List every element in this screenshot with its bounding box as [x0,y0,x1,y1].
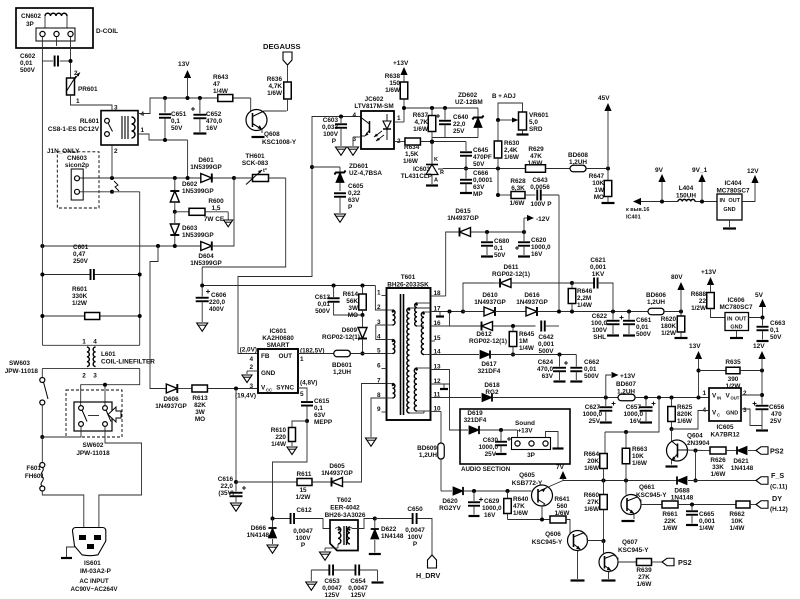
svg-text:100V: 100V [323,131,339,138]
svg-text:47K: 47K [513,503,525,510]
capacitor C661 [623,312,652,339]
wire [563,479,698,483]
svg-text:1N4937GP: 1N4937GP [321,470,353,477]
svg-text:0,0047: 0,0047 [405,527,425,534]
svg-text:(2,0V): (2,0V) [240,347,257,354]
resistor R661 [662,501,736,532]
svg-text:R641: R641 [554,496,570,503]
resistor PR601 [66,70,98,105]
svg-text:2: 2 [743,390,747,397]
potentiometer VR601 [496,112,549,135]
supply 12V [742,168,759,202]
svg-text:470: 470 [771,411,782,418]
svg-text:R664: R664 [584,451,600,458]
svg-text:1: 1 [82,339,86,346]
svg-text:1/2W: 1/2W [72,300,88,307]
svg-text:1/4W: 1/4W [577,302,593,309]
svg-text:R639: R639 [636,567,652,574]
svg-text:IC605: IC605 [716,424,733,431]
svg-text:3W: 3W [195,409,206,416]
svg-text:0,0047: 0,0047 [348,585,368,592]
svg-text:D601: D601 [198,157,214,164]
svg-text:470,0: 470,0 [537,366,553,373]
resistor R637 [413,108,436,144]
capacitor C651 [159,96,187,140]
svg-text:C612: C612 [296,507,312,514]
thermistor TH601 [234,153,286,185]
svg-text:150: 150 [389,80,400,87]
svg-text:GND: GND [723,207,735,213]
diode D611 [492,264,530,288]
diode D602 [170,178,214,214]
svg-text:1M: 1M [519,338,528,345]
resistor R626 [703,447,736,478]
svg-text:KSC945-Y: KSC945-Y [532,539,563,546]
svg-text:MO: MO [195,416,205,423]
svg-text:IC603: IC603 [413,166,430,173]
svg-text:1N4937GP: 1N4937GP [516,299,548,306]
svg-text:16V: 16V [206,125,218,132]
wire [494,281,574,285]
diode D619 [464,410,487,434]
svg-text:0,0001: 0,0001 [473,177,493,184]
svg-text:16V: 16V [630,418,642,425]
svg-text:0,0047: 0,0047 [293,528,313,535]
svg-text:C601: C601 [73,244,89,251]
svg-text:50V: 50V [473,161,485,168]
capacitor C680 [481,232,510,259]
svg-text:47K: 47K [530,153,542,160]
svg-text:3P: 3P [527,452,536,459]
resistor R613 [178,385,259,423]
inductor L404 [676,185,696,202]
svg-text:R635: R635 [725,359,741,366]
svg-text:+13V: +13V [620,373,636,380]
resistor R639 [636,559,662,589]
svg-text:5: 5 [300,391,304,398]
svg-text:L601: L601 [101,351,116,358]
diode D622 [369,517,404,555]
svg-text:KA7BR12: KA7BR12 [710,432,740,439]
svg-text:D616: D616 [524,292,540,299]
svg-text:+13V: +13V [701,269,717,276]
svg-text:MC780SC7: MC780SC7 [716,188,749,195]
svg-text:1: 1 [300,356,304,363]
wire [495,311,526,313]
svg-text:R636: R636 [267,76,283,83]
svg-text:ZD601: ZD601 [349,163,369,170]
svg-text:FB: FB [261,353,270,360]
ground [242,375,252,383]
svg-text:IC601: IC601 [269,328,286,335]
svg-text:15: 15 [299,487,307,494]
svg-text:1/4W: 1/4W [730,525,746,532]
capacitor C666 [460,169,493,199]
svg-text:250V: 250V [73,258,89,265]
wire [310,115,361,170]
supply 7V [556,464,567,481]
svg-text:1/2W: 1/2W [726,383,742,390]
svg-text:1,5: 1,5 [212,205,221,212]
svg-text:T602: T602 [337,497,352,504]
svg-text:D618: D618 [484,382,500,389]
capacitor C650 [375,506,432,555]
connector 3P Sound [512,420,564,459]
svg-text:P: P [301,542,306,549]
svg-text:MO: MO [348,312,358,319]
resistor R625 [668,398,693,432]
svg-text:10K: 10K [731,518,743,525]
svg-text:DEGAUSS: DEGAUSS [263,42,301,51]
transistor Q661 [621,481,667,522]
svg-text:OUT: OUT [735,317,747,323]
svg-text:GND: GND [261,370,276,377]
svg-text:SHL: SHL [593,334,606,341]
svg-text:SRD: SRD [529,126,543,133]
svg-text:0,1: 0,1 [314,405,323,412]
diode D606 [155,384,187,410]
svg-text:100V: 100V [296,535,312,542]
svg-text:TH601: TH601 [245,153,265,160]
transistor Q607 [599,539,649,581]
svg-text:Sound: Sound [515,420,535,427]
capacitor C615 [298,388,333,426]
wire [80,176,202,180]
zener ZD601 [312,163,382,191]
svg-text:T601: T601 [401,274,416,281]
svg-text:0,01: 0,01 [20,60,33,67]
svg-text:SW603: SW603 [9,360,30,367]
svg-text:TL431CLP: TL431CLP [401,173,433,180]
svg-text:CC: CC [266,388,272,393]
wire [493,396,618,400]
inductor BD608 [568,152,610,172]
capacitor C613 [315,286,363,316]
svg-text:7V: 7V [556,464,565,471]
svg-text:D606: D606 [163,396,179,403]
svg-text:6: 6 [377,363,381,370]
svg-text:63V: 63V [542,373,554,380]
svg-text:0,01: 0,01 [636,324,649,331]
relay RL601 [48,105,145,156]
connector DY [756,494,788,513]
svg-text:SYNC: SYNC [276,385,294,392]
IC IC404 MC780SC7 [716,180,749,220]
svg-text:R630: R630 [504,140,520,147]
resistor R662 [729,501,756,532]
svg-text:D619: D619 [467,410,483,417]
svg-text:BH26-2033SK: BH26-2033SK [387,282,429,289]
svg-text:P: P [348,204,353,211]
svg-text:1/2W: 1/2W [661,330,677,337]
wire [138,134,188,178]
svg-text:C621: C621 [590,257,606,264]
svg-text:560: 560 [557,503,568,510]
supply 12V [753,343,766,405]
resistor R664 [584,432,608,495]
svg-text:R: R [440,170,444,176]
svg-text:1: 1 [76,98,80,105]
svg-text:2: 2 [74,70,78,77]
wire [508,518,551,522]
capacitor C642 [538,321,559,356]
svg-text:GND: GND [726,411,738,417]
transformer T602 [325,497,375,551]
resistor R634 [394,138,466,165]
capacitor C603 [322,117,347,156]
svg-text:R634: R634 [404,144,420,151]
svg-text:0,1: 0,1 [494,245,503,252]
svg-text:80V: 80V [671,274,683,281]
svg-text:IC606: IC606 [727,297,744,304]
svg-text:1,2UH: 1,2UH [569,159,587,166]
svg-text:25V: 25V [770,418,782,425]
svg-text:0,47: 0,47 [73,251,86,258]
svg-text:C666: C666 [473,170,489,177]
svg-text:C661: C661 [636,317,652,324]
wire [311,569,377,571]
svg-text:500V: 500V [315,308,331,315]
wire [432,137,478,139]
svg-text:RGP02-12(1): RGP02-12(1) [469,338,507,345]
wire [480,428,518,438]
svg-text:Q606: Q606 [545,531,561,538]
diode D617 [478,350,501,375]
svg-text:FH601: FH601 [25,473,45,480]
svg-text:AC INPUT: AC INPUT [79,578,108,585]
wire [431,312,464,327]
svg-text:C642: C642 [538,334,554,341]
wire [233,97,251,99]
ground [306,570,317,590]
svg-text:1N4937GP: 1N4937GP [474,299,506,306]
svg-text:D610: D610 [482,292,498,299]
diode D610 [474,292,506,316]
svg-text:1N4148: 1N4148 [247,532,270,539]
svg-text:1/6W: 1/6W [385,87,401,94]
svg-text:1KV: 1KV [592,271,605,278]
svg-text:0,01: 0,01 [318,301,331,308]
capacitor C612 [291,507,335,549]
svg-text:9V_1: 9V_1 [692,167,708,174]
capacitor C621 [572,257,613,312]
transistor Q605 [512,472,563,520]
wire [687,449,703,481]
svg-text:C629: C629 [484,498,500,505]
svg-text:UZ-4,7BSA: UZ-4,7BSA [349,170,382,177]
switch SW602 [42,368,141,533]
switch SW603 [5,360,48,439]
IC IC605 KA7BR12 [702,388,747,439]
svg-text:D620: D620 [442,498,458,505]
svg-text:1/4W: 1/4W [699,525,715,532]
svg-text:4: 4 [352,112,356,119]
svg-text:3: 3 [114,105,118,112]
svg-text:R629: R629 [528,146,544,153]
svg-text:R646: R646 [577,288,593,295]
svg-text:330K: 330K [72,293,88,300]
svg-text:50V: 50V [494,252,506,259]
svg-text:0,22: 0,22 [348,190,361,197]
svg-text:220,0: 220,0 [209,299,225,306]
svg-text:KSC945-Y: KSC945-Y [636,492,667,499]
wire [741,394,762,396]
inductor BD607 [616,381,709,401]
transformer T601 [377,274,441,420]
svg-text:1/6W: 1/6W [711,471,727,478]
transistor Q606 [532,531,604,581]
resistor R688 [691,291,725,318]
diode D604 [190,241,222,267]
svg-text:SW602: SW602 [83,442,104,449]
svg-text:C651: C651 [171,111,187,118]
svg-text:C665: C665 [699,511,715,518]
svg-text:100V: 100V [592,327,608,334]
svg-text:MEPP: MEPP [314,419,333,426]
resistor R643 [213,74,233,102]
svg-text:R628: R628 [510,178,526,185]
svg-text:50V: 50V [171,125,183,132]
supply 9V [655,167,666,202]
svg-text:470PF: 470PF [473,154,492,161]
ground [366,438,377,446]
svg-text:F_S: F_S [771,471,784,480]
ground [348,147,359,155]
wire [211,178,234,246]
svg-text:321DF4: 321DF4 [478,368,501,375]
svg-text:BH26-3A3026: BH26-3A3026 [325,512,366,519]
svg-text:100,0: 100,0 [591,320,607,327]
svg-text:321DF4: 321DF4 [464,417,487,424]
IC U601 KA2H0680 [235,328,324,400]
svg-text:(35V): (35V) [218,490,234,497]
wire [234,389,238,485]
svg-text:16V: 16V [531,251,543,258]
supply 5V [755,292,766,307]
capacitor C657 [623,398,655,426]
svg-text:GND: GND [730,325,742,331]
wire [431,397,482,399]
wire [150,246,166,389]
svg-text:RG2: RG2 [485,389,499,396]
svg-text:9V: 9V [655,167,664,174]
svg-text:к выв.16: к выв.16 [626,207,649,213]
svg-text:CS8-1-ES DC12V: CS8-1-ES DC12V [48,126,100,133]
svg-text:470,0: 470,0 [206,118,222,125]
svg-text:3W: 3W [348,305,359,312]
resistor R601 [72,286,100,320]
wire [247,371,258,374]
wire [71,95,113,111]
svg-text:R626: R626 [710,457,726,464]
connector H_DRV [416,555,440,580]
connector CN602 D-COIL [16,8,118,48]
wire [463,325,482,327]
ground [320,552,331,560]
wire [431,354,480,356]
svg-text:1N5399GP: 1N5399GP [190,260,222,267]
svg-text:0,001: 0,001 [590,264,606,271]
svg-text:1W: 1W [594,187,605,194]
svg-text:-12V: -12V [536,216,550,223]
svg-text:0,001: 0,001 [538,341,554,348]
wire [41,37,43,58]
svg-text:56K: 56K [346,298,358,305]
svg-text:1: 1 [702,390,706,397]
resistor R660 [584,492,608,553]
connector F_S [756,471,787,491]
svg-text:DY: DY [772,494,782,503]
shunt-regulator IC603 [401,142,466,186]
svg-text:1/6W: 1/6W [584,465,600,472]
wire [441,490,452,492]
svg-text:BD601: BD601 [332,362,352,369]
svg-text:10K: 10K [632,453,644,460]
svg-text:B + ADJ: B + ADJ [492,93,516,100]
svg-text:C615: C615 [314,398,330,405]
inductor BD606 [646,292,683,315]
svg-text:1/6W: 1/6W [555,510,571,517]
svg-text:7W CE: 7W CE [204,216,225,223]
svg-text:180K: 180K [661,323,677,330]
svg-text:D688: D688 [674,488,690,495]
diode D609 [322,315,367,356]
svg-text:EER-4042: EER-4042 [330,505,360,512]
svg-text:(4,8V): (4,8V) [300,380,317,387]
svg-text:2: 2 [114,148,118,155]
svg-text:R638: R638 [385,73,401,80]
wire [353,137,361,146]
wire [139,192,141,345]
supply 13V [689,343,702,398]
diode D605 [321,384,386,487]
svg-text:1N5399GP: 1N5399GP [182,232,214,239]
svg-text:1: 1 [397,115,401,122]
svg-text:R601: R601 [72,286,88,293]
svg-text:1,5K: 1,5K [405,151,419,158]
svg-text:R611: R611 [297,471,312,478]
svg-text:R610: R610 [271,427,287,434]
svg-text:C680: C680 [494,238,510,245]
svg-text:KSC1008-Y: KSC1008-Y [262,139,297,146]
svg-text:C624: C624 [538,359,554,366]
capacitor C620 [515,232,551,258]
svg-text:R663: R663 [632,446,648,453]
svg-text:D605: D605 [329,463,345,470]
svg-text:0,1: 0,1 [770,327,779,334]
svg-text:500V: 500V [636,331,652,338]
svg-text:C620: C620 [531,237,547,244]
svg-text:1/4W: 1/4W [519,345,535,352]
svg-text:500V: 500V [539,348,555,355]
svg-text:4: 4 [141,111,145,118]
wire [431,370,469,431]
svg-text:27K: 27K [638,574,650,581]
svg-text:7: 7 [377,378,381,385]
inductor L601 [42,339,155,380]
svg-text:D666: D666 [251,525,267,532]
svg-text:sicon2p: sicon2p [65,162,89,169]
resistor R663 [605,398,659,481]
svg-text:400V: 400V [209,306,225,313]
svg-text:OUT: OUT [731,396,740,401]
svg-text:R640: R640 [513,496,529,503]
svg-text:IN: IN [727,317,733,323]
svg-text:22,0: 22,0 [221,483,234,490]
diode D601 [190,157,222,183]
svg-text:D609: D609 [342,327,358,334]
svg-text:RGP02-12(1): RGP02-12(1) [322,334,360,341]
